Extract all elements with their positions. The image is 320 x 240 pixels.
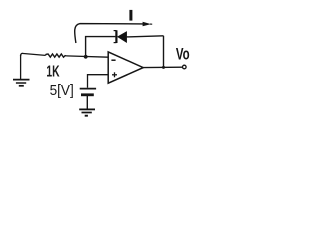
svg-text:Vo: Vo <box>176 46 190 64</box>
node B (junction dot on output) <box>162 66 165 69</box>
svg-text:1K: 1K <box>46 63 60 80</box>
op-amp U1 <box>108 52 143 83</box>
wire: resistor to op-amp inverting input <box>66 56 108 57</box>
pin label minus <box>111 59 115 61</box>
svg-text:5[V]: 5[V] <box>50 83 74 99</box>
battery V1 5[V] <box>80 89 96 95</box>
wire: battery to ground <box>86 96 88 109</box>
ground GND2 (below battery) <box>79 109 95 115</box>
pin label plus <box>112 72 117 77</box>
wire: diode to right feedback corner <box>127 36 164 37</box>
diode D1 (cathode bar, pointing left) <box>114 30 127 43</box>
current arrow I (annotation) <box>75 22 153 43</box>
wire: junction up to diode line <box>86 37 116 57</box>
wire: left ground to resistor <box>22 53 45 55</box>
ground GND1 (left) <box>13 53 30 86</box>
node A (junction dot, inverting input) <box>84 55 88 59</box>
resistor R1 <box>45 54 66 57</box>
wire: feedback vertical down to output <box>163 36 165 68</box>
current label I <box>129 10 132 21</box>
wire: op-amp non-inverting input to battery <box>88 75 109 88</box>
output terminal circle <box>183 65 187 69</box>
wire: op-amp output <box>143 66 182 68</box>
